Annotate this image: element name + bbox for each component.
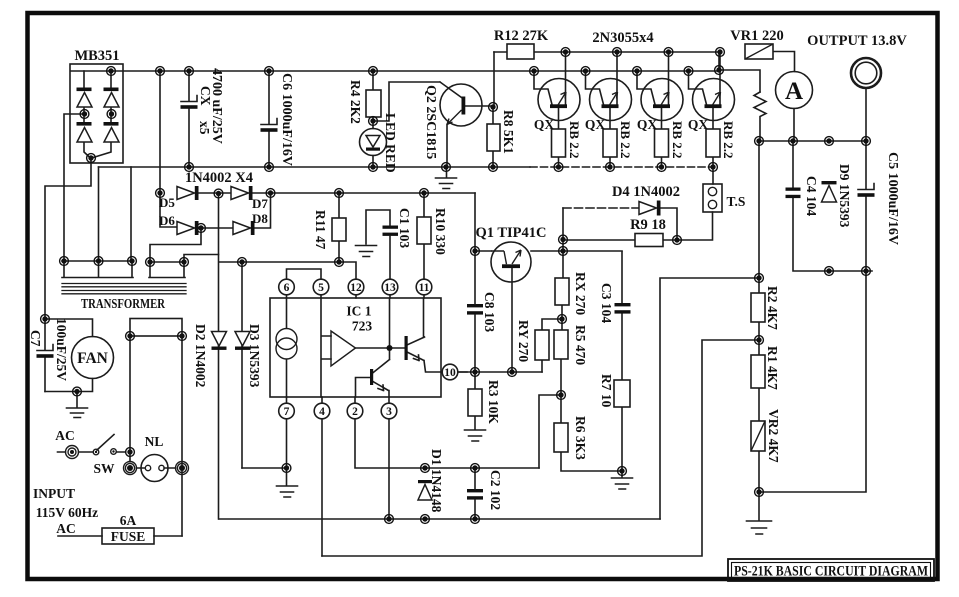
svg-text:D4 1N4002: D4 1N4002 — [612, 184, 680, 200]
svg-text:NL: NL — [145, 434, 164, 449]
svg-text:R10 330: R10 330 — [433, 208, 448, 255]
svg-text:723: 723 — [352, 319, 373, 334]
svg-text:FUSE: FUSE — [111, 529, 146, 544]
svg-text:5: 5 — [318, 282, 324, 294]
svg-text:VR1 220: VR1 220 — [730, 28, 784, 44]
svg-text:QX: QX — [585, 117, 606, 132]
svg-text:R1 4K7: R1 4K7 — [765, 346, 780, 390]
svg-text:TRANSFORMER: TRANSFORMER — [81, 296, 165, 311]
svg-text:100uF/25V: 100uF/25V — [54, 318, 69, 381]
svg-text:R7 10: R7 10 — [599, 374, 614, 408]
svg-text:FAN: FAN — [77, 350, 108, 367]
svg-text:T.S: T.S — [727, 194, 746, 209]
svg-text:Q2 2SC1815: Q2 2SC1815 — [423, 85, 438, 159]
svg-text:RY 270: RY 270 — [516, 320, 531, 362]
svg-text:7: 7 — [284, 406, 290, 418]
svg-text:x5: x5 — [197, 121, 212, 135]
svg-text:11: 11 — [419, 282, 430, 294]
svg-text:D1 1N4148: D1 1N4148 — [429, 449, 444, 513]
svg-text:RB 2.2: RB 2.2 — [567, 121, 582, 159]
svg-text:3: 3 — [386, 406, 392, 418]
svg-text:2: 2 — [352, 406, 358, 418]
svg-text:QX: QX — [534, 117, 555, 132]
svg-text:R4 2K2: R4 2K2 — [348, 80, 363, 124]
svg-text:13: 13 — [384, 282, 396, 294]
svg-text:D3 1N5393: D3 1N5393 — [247, 324, 262, 388]
svg-text:R2 4K7: R2 4K7 — [765, 286, 780, 330]
svg-text:6A: 6A — [120, 513, 137, 528]
svg-text:D5: D5 — [159, 195, 175, 210]
svg-text:R9 18: R9 18 — [630, 217, 666, 233]
svg-text:SW: SW — [93, 461, 115, 476]
svg-text:C8 103: C8 103 — [482, 292, 497, 332]
svg-text:C2 102: C2 102 — [488, 470, 503, 510]
svg-text:QX: QX — [637, 117, 658, 132]
svg-text:D6: D6 — [159, 213, 175, 228]
svg-text:2N3055x4: 2N3055x4 — [592, 30, 653, 46]
svg-text:R3 10K: R3 10K — [486, 380, 501, 424]
svg-text:D9 1N5393: D9 1N5393 — [837, 164, 852, 228]
svg-text:QX: QX — [688, 117, 709, 132]
svg-text:12: 12 — [350, 282, 362, 294]
svg-text:115V 60Hz: 115V 60Hz — [36, 505, 98, 520]
svg-text:OUTPUT 13.8V: OUTPUT 13.8V — [807, 33, 907, 49]
svg-text:AC: AC — [55, 428, 75, 443]
svg-text:C1 103: C1 103 — [397, 208, 412, 248]
svg-text:C5 1000uF/16V: C5 1000uF/16V — [885, 152, 900, 245]
svg-text:RB 2.2: RB 2.2 — [670, 121, 685, 159]
svg-text:C4 104: C4 104 — [804, 176, 819, 216]
svg-text:R8 5K1: R8 5K1 — [501, 110, 516, 154]
svg-text:D8: D8 — [252, 211, 268, 226]
svg-text:IC 1: IC 1 — [346, 304, 371, 319]
svg-text:Q1 TIP41C: Q1 TIP41C — [475, 225, 546, 241]
svg-text:C7: C7 — [28, 330, 43, 347]
svg-text:RB 2.2: RB 2.2 — [618, 121, 633, 159]
svg-text:R5 470: R5 470 — [573, 325, 588, 365]
svg-text:C6 1000uF/16V: C6 1000uF/16V — [279, 73, 294, 166]
svg-text:INPUT: INPUT — [33, 486, 75, 501]
svg-text:10: 10 — [444, 367, 456, 379]
svg-text:VR2 4K7: VR2 4K7 — [766, 409, 781, 463]
svg-text:C3 104: C3 104 — [599, 283, 614, 323]
svg-text:LED RED: LED RED — [383, 113, 398, 173]
svg-text:R6 3K3: R6 3K3 — [573, 416, 588, 460]
svg-text:A: A — [785, 78, 803, 105]
svg-text:4: 4 — [319, 406, 325, 418]
svg-text:1N4002 X4: 1N4002 X4 — [185, 170, 253, 186]
svg-text:R11 47: R11 47 — [313, 210, 328, 250]
svg-text:PS-21K BASIC CIRCUIT DIAGRAM: PS-21K BASIC CIRCUIT DIAGRAM — [734, 564, 928, 580]
svg-text:D7: D7 — [252, 196, 268, 211]
svg-text:RB 2.2: RB 2.2 — [721, 121, 736, 159]
svg-text:D2 1N4002: D2 1N4002 — [193, 324, 208, 388]
svg-text:RX 270: RX 270 — [573, 272, 588, 315]
svg-text:MB351: MB351 — [74, 48, 119, 64]
svg-text:6: 6 — [284, 282, 290, 294]
svg-text:AC: AC — [56, 521, 76, 536]
svg-text:R12 27K: R12 27K — [494, 28, 549, 44]
